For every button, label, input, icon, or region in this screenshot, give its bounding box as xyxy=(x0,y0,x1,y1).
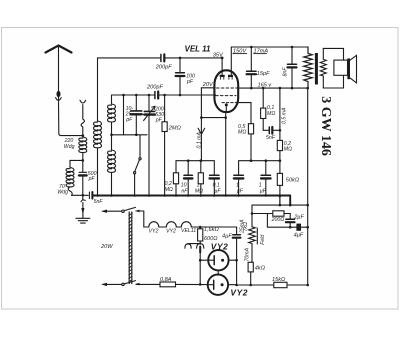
field coil Feld xyxy=(249,227,258,245)
svg-text:0,8A: 0,8A xyxy=(160,277,172,283)
node row2 0,5M xyxy=(250,159,253,162)
resistor 1,6kOhm 600Ohm tapped xyxy=(198,227,203,243)
anode plate 1 xyxy=(220,75,225,79)
node B+ busdrop xyxy=(289,204,292,207)
wire bottom row right xyxy=(237,284,274,286)
node cathode line junction xyxy=(200,116,203,119)
capacitor 500pF xyxy=(79,160,87,195)
wire bus drop to B+ line xyxy=(289,196,291,206)
svg-text:pF: pF xyxy=(155,118,163,124)
node 2M top xyxy=(163,94,166,97)
wire cathode horizontal xyxy=(201,117,225,119)
capacitor 100pF xyxy=(176,58,185,95)
svg-text:20V: 20V xyxy=(202,82,214,88)
svg-text:70mA: 70mA xyxy=(245,247,251,261)
node bus 2M xyxy=(163,194,166,197)
svg-text:VEL11: VEL11 xyxy=(181,228,196,234)
wire 165v line xyxy=(238,87,308,89)
node cathode bus xyxy=(224,194,227,197)
node VY2b left xyxy=(199,283,202,286)
wire 0,5mA vertical xyxy=(279,88,281,140)
node 8nF bottom xyxy=(291,87,294,90)
resistor 0,1MOhm xyxy=(261,88,266,130)
wire left column to bus xyxy=(97,148,99,196)
wire anode pin 1 xyxy=(221,58,223,75)
node 15pF rail xyxy=(250,46,253,49)
svg-text:2µF: 2µF xyxy=(293,215,304,221)
svg-text:2MΩ: 2MΩ xyxy=(168,125,182,131)
svg-text:pF: pF xyxy=(125,117,133,123)
capacitor 0,1uF xyxy=(210,175,219,195)
svg-text:0,1 mA: 0,1 mA xyxy=(197,132,203,149)
underline 150V xyxy=(233,53,248,55)
node switch bus xyxy=(133,194,136,197)
wire Feld column xyxy=(251,205,253,213)
node grid line x136.3 xyxy=(135,94,138,97)
capacitor 5nF series xyxy=(89,192,92,199)
node cathode vertical xyxy=(224,116,227,119)
wire top rail 35V right segment xyxy=(164,57,222,59)
wire screen pin 2 to top rail xyxy=(231,47,308,75)
node row2 right end xyxy=(279,159,282,162)
node row1 10nF xyxy=(187,159,190,162)
node B+ rail xyxy=(306,204,309,207)
node grid line x149 xyxy=(148,94,151,97)
svg-text:5nF: 5nF xyxy=(266,135,276,141)
wire heater to 4uF xyxy=(200,226,236,228)
svg-text:4µF: 4µF xyxy=(222,233,232,239)
plug mains lower xyxy=(101,283,122,286)
capacitor 5nF coupling xyxy=(263,127,280,134)
svg-text:15pF: 15pF xyxy=(257,71,270,77)
svg-text:4kΩ: 4kΩ xyxy=(255,266,266,272)
node 220Wdg bottom xyxy=(82,159,85,162)
node trimmer bottom tap xyxy=(135,134,138,137)
wire grid line left segment xyxy=(112,94,155,96)
svg-text:3 GW 146: 3 GW 146 xyxy=(318,96,333,156)
wire left column from top rail xyxy=(97,58,99,121)
node varcap bus xyxy=(148,194,151,197)
wire right rail xyxy=(307,88,309,285)
node 5nF junction xyxy=(279,129,282,132)
resistor 0,5MOhm xyxy=(248,124,253,161)
svg-text:VY2: VY2 xyxy=(166,229,176,235)
svg-text:220: 220 xyxy=(64,138,74,144)
svg-text:µF: µF xyxy=(260,188,267,194)
resistor 0,2MOhm upper xyxy=(277,140,282,173)
speaker bar xyxy=(347,58,350,79)
node row1 1M xyxy=(200,159,203,162)
node 50k bus xyxy=(279,194,282,197)
svg-text:0,5 mA: 0,5 mA xyxy=(281,107,287,124)
switch mains upper xyxy=(122,207,144,212)
node 8nF top xyxy=(291,46,294,49)
node 4uF bottom xyxy=(235,284,238,287)
svg-text:Wdg: Wdg xyxy=(57,189,68,195)
node right column bus xyxy=(110,194,113,197)
resistor 4kOhm xyxy=(248,262,253,285)
svg-text:VY2: VY2 xyxy=(149,229,159,235)
svg-text:8nF: 8nF xyxy=(282,67,288,77)
jack sockets xyxy=(185,243,204,253)
capacitor 200pF top rail xyxy=(161,54,164,61)
underline 17mA xyxy=(253,53,267,55)
node primary bottom rail xyxy=(306,87,309,90)
svg-text:µF: µF xyxy=(214,188,221,194)
wire 70mA xyxy=(251,245,252,263)
op tube VEL11 envelope xyxy=(214,70,238,112)
node VY2a left xyxy=(199,259,202,262)
node 100pF bottom xyxy=(179,94,182,97)
wire stub x123.5 xyxy=(123,95,125,135)
svg-text:15kΩ: 15kΩ xyxy=(272,277,286,283)
node antenna tap xyxy=(82,134,85,137)
wire bottom-left line xyxy=(72,194,89,196)
node heater resistor top xyxy=(199,226,202,229)
resistor 0,2MOhm row1 xyxy=(173,173,178,196)
capacitor trimmer 10-25pF xyxy=(131,95,142,135)
svg-text:200pF: 200pF xyxy=(146,85,163,91)
node 0,1M top xyxy=(262,87,265,90)
capacitor 15pF xyxy=(247,47,256,88)
wire right column to bus xyxy=(111,172,113,195)
coil 70 Wdg xyxy=(66,160,83,195)
wire 200R row xyxy=(252,213,272,215)
svg-text:pF: pF xyxy=(186,79,194,85)
svg-text:50kΩ: 50kΩ xyxy=(286,178,300,184)
wire antenna to coil tap xyxy=(59,102,83,136)
node 100pF top xyxy=(179,57,182,60)
heater chain VY2 VY2 VEL11 xyxy=(144,222,200,227)
speaker loop wires xyxy=(323,48,343,88)
node y227 2uF xyxy=(289,226,292,229)
plug mains upper xyxy=(101,210,122,213)
node grid line x123.5 xyxy=(122,94,125,97)
node bus 0,1uF xyxy=(213,194,216,197)
transformer core xyxy=(315,53,318,85)
svg-text:4µF: 4µF xyxy=(294,233,304,239)
wire grid line right segment xyxy=(158,94,215,96)
svg-text:µF: µF xyxy=(237,188,244,194)
grid dashes g3 xyxy=(222,102,238,104)
wire 50k continuation xyxy=(279,196,281,205)
svg-text:Wdg: Wdg xyxy=(64,144,75,150)
ground xyxy=(76,195,90,223)
resistor 50kOhm xyxy=(277,173,282,205)
wire right column mid xyxy=(111,122,113,150)
svg-text:MΩ: MΩ xyxy=(267,111,275,117)
wire socket2 to coil xyxy=(81,105,84,138)
node 500pF bottom xyxy=(82,194,85,197)
node row2 1uF2 xyxy=(265,159,268,162)
wire 20V grid line xyxy=(201,87,215,89)
svg-text:7kΩ: 7kΩ xyxy=(243,222,249,231)
wire main bus xyxy=(94,195,291,197)
node bus 1uF xyxy=(237,194,240,197)
wire Feld down xyxy=(251,214,253,227)
node 4k bottom xyxy=(249,284,252,287)
capacitor 10nF xyxy=(184,161,192,196)
svg-text:20W: 20W xyxy=(100,244,113,250)
coil tuned left winding xyxy=(94,121,102,148)
coil tuned right winding lower xyxy=(108,150,116,172)
node 0,5mA top xyxy=(279,87,282,90)
grid dashes 20V/165V xyxy=(217,87,238,89)
node bus 10nF xyxy=(187,194,190,197)
wire top rail 35V left segment xyxy=(98,57,161,59)
svg-text:35V: 35V xyxy=(213,52,224,58)
rectifier VY2 b xyxy=(208,275,237,295)
cathode xyxy=(225,103,228,112)
node 4uF mid xyxy=(235,259,238,262)
svg-text:pF: pF xyxy=(88,176,96,182)
coil tuned right winding upper xyxy=(108,95,116,122)
svg-text:MΩ: MΩ xyxy=(284,147,292,153)
coil 220 Wdg xyxy=(79,137,87,153)
capacitor 8nF xyxy=(288,47,297,88)
node bus 1uF2 xyxy=(265,194,268,197)
arrow current 0,1mA xyxy=(198,128,205,134)
antenna socket 2 xyxy=(80,100,86,103)
svg-text:5nF: 5nF xyxy=(94,199,104,205)
svg-text:200Ω: 200Ω xyxy=(271,217,285,223)
fuse 0,8A xyxy=(160,282,208,287)
svg-text:MΩ: MΩ xyxy=(165,187,173,193)
antenna xyxy=(46,46,72,92)
wire row2 xyxy=(239,161,280,176)
rectifier VY2 a xyxy=(200,250,236,270)
wire y227 line xyxy=(267,214,307,228)
wire heater drop xyxy=(143,211,145,227)
node anode pin rail xyxy=(221,57,224,60)
capacitor 4uF electrolytic xyxy=(296,224,301,231)
resistor 1MOhm xyxy=(198,161,203,196)
transformer secondary winding xyxy=(320,48,326,88)
svg-text:VY2: VY2 xyxy=(230,287,248,297)
wire grid leak vertical xyxy=(200,88,202,161)
node bus 1M xyxy=(200,194,203,197)
wire cathode to bus xyxy=(225,112,227,196)
resistor 200Ohm xyxy=(273,211,290,216)
node left column bus xyxy=(96,194,99,197)
svg-text:200pF: 200pF xyxy=(155,64,172,70)
capacitor 2uF xyxy=(286,214,295,228)
resistor 15kOhm xyxy=(274,282,308,287)
wire VY2a-VY2b link xyxy=(217,270,219,274)
antenna socket 1 xyxy=(56,98,62,101)
capacitor 4uF heater xyxy=(233,227,241,285)
speaker magnet box xyxy=(334,60,348,75)
antenna plug xyxy=(57,91,60,100)
svg-text:MΩ: MΩ xyxy=(238,130,246,136)
wire B+ line y205 xyxy=(252,204,308,206)
wire coil to node xyxy=(82,153,84,161)
svg-text:165 v: 165 v xyxy=(258,82,273,88)
svg-text:nF: nF xyxy=(181,188,188,194)
capacitor 200pF grid xyxy=(155,92,158,99)
capacitor variable 200-530pF xyxy=(144,95,155,196)
anode plate 2 xyxy=(228,75,233,79)
transformer primary winding xyxy=(304,47,313,88)
capacitor 1uF second xyxy=(261,161,270,196)
switch mains lower xyxy=(122,281,160,286)
wire tap xyxy=(112,134,148,136)
wire row1 xyxy=(176,161,214,176)
capacitor 1uF first xyxy=(234,175,243,195)
node bottom rail xyxy=(306,284,309,287)
svg-text:1,6kΩ: 1,6kΩ xyxy=(204,227,220,233)
node tap xyxy=(110,134,113,137)
svg-text:Feld: Feld xyxy=(260,234,266,245)
node 15pF bottom xyxy=(250,87,253,90)
node 200R left xyxy=(251,212,254,215)
svg-text:MΩ: MΩ xyxy=(195,188,203,194)
node bus 0,2M xyxy=(175,194,178,197)
switch band xyxy=(134,135,142,196)
grid dashes control xyxy=(216,95,236,97)
resistor 2MOhm xyxy=(162,95,167,196)
node y227 rail xyxy=(306,226,309,229)
svg-text:VY2: VY2 xyxy=(211,241,229,251)
mains cord xyxy=(129,212,132,284)
wire jack to tube xyxy=(199,250,201,284)
svg-text:VEL 11: VEL 11 xyxy=(185,44,211,53)
wire g3 to 0,5M xyxy=(238,103,252,124)
speaker cone xyxy=(350,55,357,83)
node B+ 50k xyxy=(279,204,282,207)
